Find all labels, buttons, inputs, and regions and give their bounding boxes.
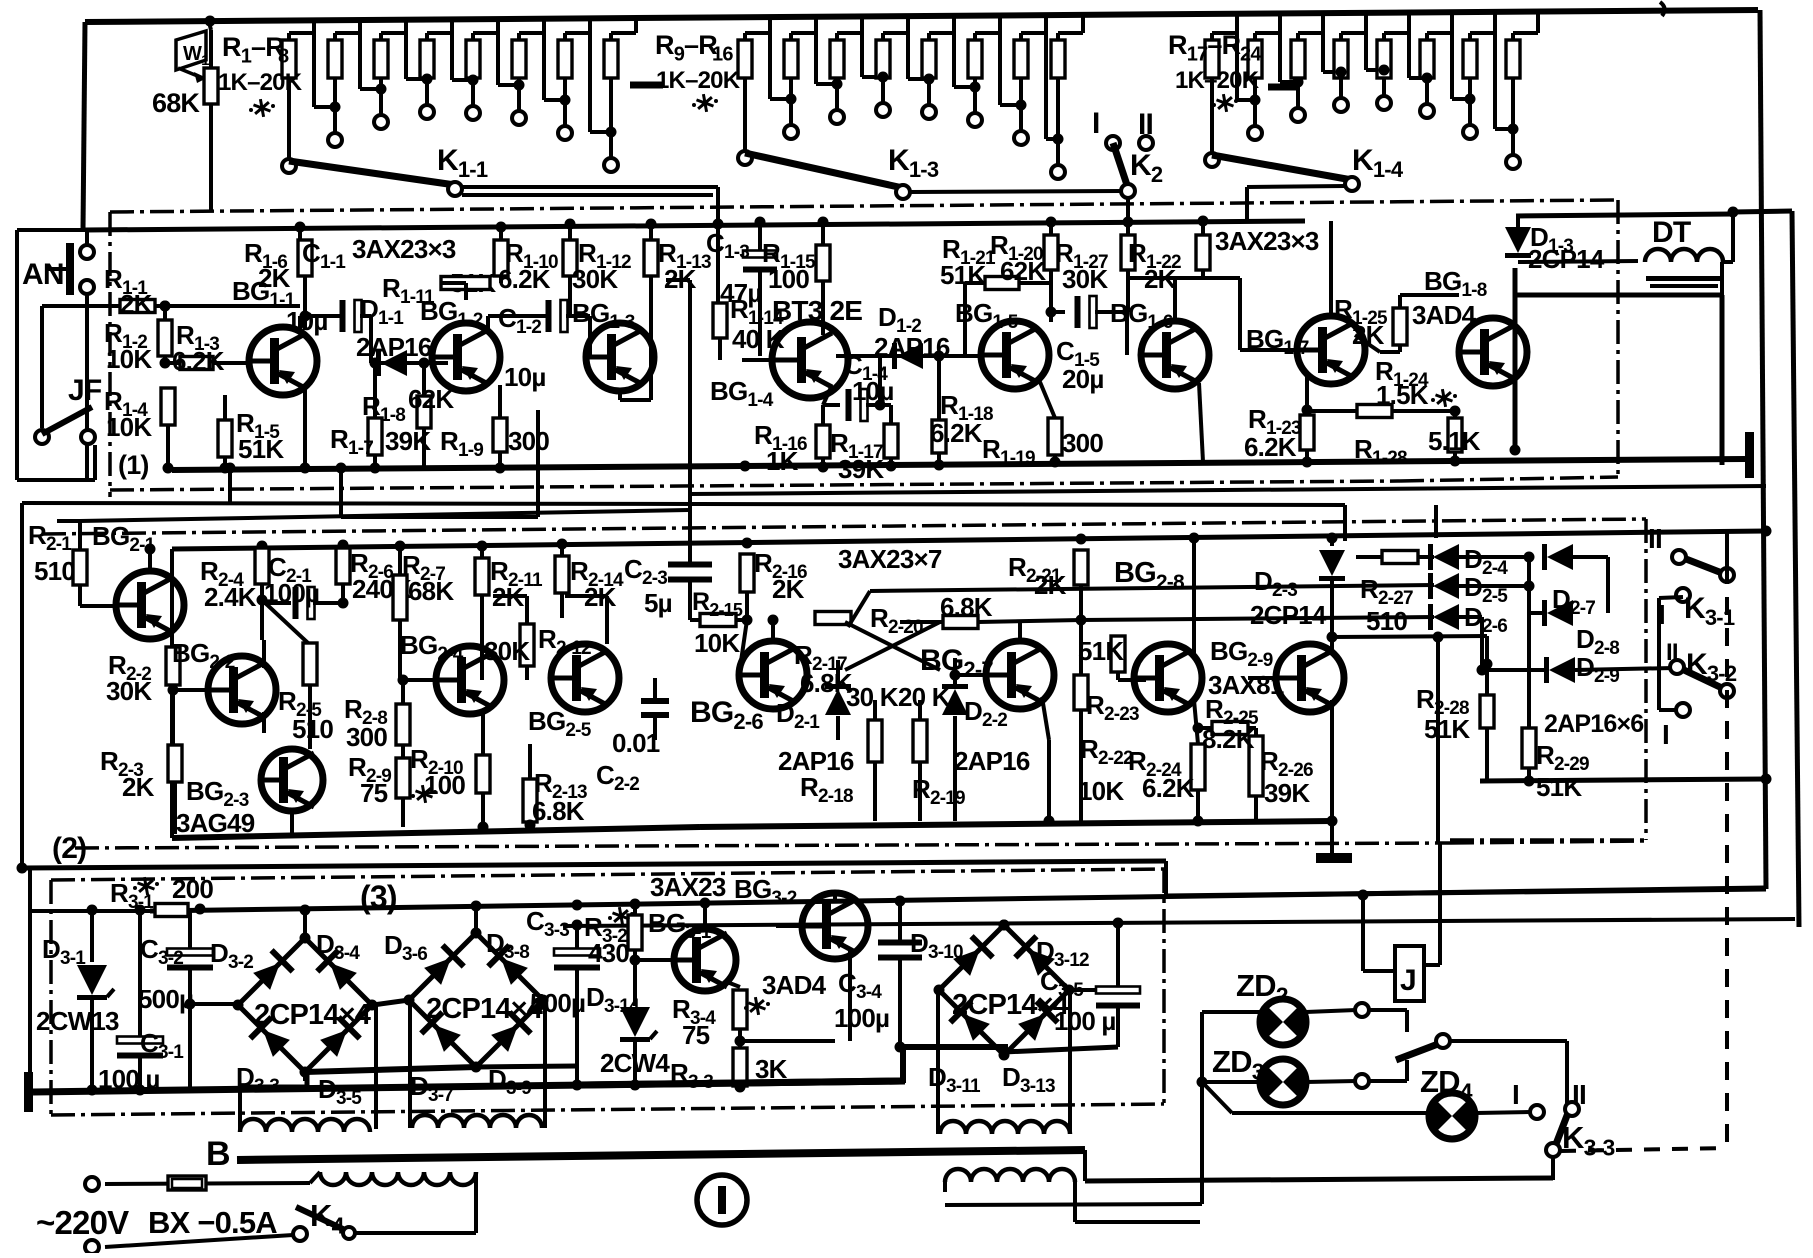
svg-text:30K: 30K [484,636,530,666]
svg-text:10µ: 10µ [286,306,328,336]
svg-text:30K: 30K [1062,264,1108,294]
svg-text:3AX23×3: 3AX23×3 [1215,226,1319,256]
svg-text:2CP14×4: 2CP14×4 [426,993,543,1025]
svg-text:II: II [1648,523,1662,554]
svg-text:3AX23×7: 3AX23×7 [838,544,942,574]
svg-text:51K: 51K [1078,636,1124,666]
svg-text:300: 300 [508,426,549,456]
svg-text:2K: 2K [120,289,153,319]
svg-text:6.2K: 6.2K [1142,773,1195,803]
svg-text:300: 300 [346,722,387,752]
svg-text:2CP14: 2CP14 [1250,600,1327,630]
svg-text:510: 510 [1366,606,1407,636]
svg-text:6.2K: 6.2K [172,346,225,376]
svg-text:39K: 39K [1264,778,1310,808]
svg-text:1K–20K: 1K–20K [656,67,741,94]
svg-text:39K: 39K [838,454,884,484]
svg-text:2CW13: 2CW13 [36,1006,119,1036]
svg-text:1.5K: 1.5K [1376,380,1429,410]
svg-text:BT3 2E: BT3 2E [772,295,862,326]
svg-text:430: 430 [588,938,629,968]
svg-text:6.2K: 6.2K [930,418,983,448]
svg-text:2AP16: 2AP16 [954,746,1030,776]
svg-text:62K: 62K [1000,256,1046,286]
svg-text:2K: 2K [122,772,155,802]
svg-text:5µ: 5µ [644,588,672,618]
svg-text:100: 100 [424,770,465,800]
svg-text:500µ: 500µ [138,984,193,1014]
svg-text:510: 510 [34,556,75,586]
svg-text:39K: 39K [385,426,431,456]
svg-text:100 µ: 100 µ [1054,1006,1116,1036]
svg-text:B: B [206,1135,230,1173]
svg-text:2K: 2K [258,263,291,293]
svg-text:30 K: 30 K [846,682,899,712]
svg-text:16: 16 [712,44,733,66]
svg-text:8: 8 [278,46,289,68]
svg-text:500µ: 500µ [530,988,585,1018]
svg-text:10K: 10K [694,628,740,658]
svg-text:5.1K: 5.1K [1428,426,1481,456]
svg-text:BX −0.5A: BX −0.5A [148,1205,277,1240]
svg-text:6.8K: 6.8K [532,796,585,826]
svg-text:24: 24 [1240,44,1262,66]
svg-text:30K: 30K [106,676,152,706]
svg-text:(2): (2) [52,832,86,865]
svg-text:JF: JF [68,374,102,407]
svg-text:(1): (1) [118,450,149,480]
svg-text:2K: 2K [772,574,805,604]
svg-text:3AD4: 3AD4 [762,970,827,1000]
svg-text:75: 75 [682,1020,710,1050]
svg-text:75: 75 [360,778,388,808]
svg-text:30K: 30K [572,264,618,294]
svg-text:51K: 51K [1424,714,1470,744]
svg-text:6.2K: 6.2K [1244,432,1297,462]
svg-text:68K: 68K [408,576,454,606]
svg-text:1K: 1K [766,446,799,476]
svg-text:10K: 10K [106,344,152,374]
svg-text:200: 200 [172,874,213,904]
svg-text:II: II [1138,108,1153,141]
svg-text:10K: 10K [106,412,152,442]
svg-text:100: 100 [768,264,809,294]
svg-text:6.8K: 6.8K [800,668,853,698]
svg-text:0.01: 0.01 [612,728,660,758]
svg-text:2AP16×6: 2AP16×6 [1544,710,1643,738]
svg-text:300: 300 [1062,428,1103,458]
svg-text:I: I [1662,719,1669,750]
svg-text:1K–20K: 1K–20K [1175,67,1260,94]
svg-text:51K: 51K [1536,772,1582,802]
svg-text:3AX23: 3AX23 [650,872,726,902]
svg-text:68K: 68K [152,88,200,118]
svg-text:100 µ: 100 µ [98,1064,160,1094]
svg-text:2CP14×4: 2CP14×4 [254,999,371,1031]
svg-text:10K: 10K [1078,776,1124,806]
svg-text:2AP16: 2AP16 [356,332,432,362]
svg-text:51K: 51K [238,434,284,464]
svg-text:~220V: ~220V [36,1204,129,1241]
svg-text:1K–20K: 1K–20K [218,69,303,96]
svg-text:I: I [1092,107,1100,140]
svg-text:100µ: 100µ [834,1003,889,1033]
svg-text:I: I [1512,1079,1519,1110]
svg-text:2.4K: 2.4K [204,582,257,612]
svg-text:10µ: 10µ [852,376,894,406]
svg-text:510: 510 [292,714,333,744]
svg-text:20µ: 20µ [1062,364,1104,394]
svg-text:2CP14: 2CP14 [1528,244,1605,274]
svg-text:6.2K: 6.2K [498,264,551,294]
svg-text:J: J [1400,964,1416,997]
svg-text:3AX23×3: 3AX23×3 [352,234,456,264]
svg-text:100µ: 100µ [264,578,319,608]
svg-text:AN: AN [22,258,64,291]
svg-text:2K: 2K [1034,570,1067,600]
svg-text:DT: DT [1652,216,1691,249]
svg-text:3AG49: 3AG49 [176,808,255,838]
svg-text:10µ: 10µ [504,362,546,392]
svg-text:2CW4: 2CW4 [600,1048,670,1078]
svg-text:8.2K: 8.2K [1202,724,1255,754]
